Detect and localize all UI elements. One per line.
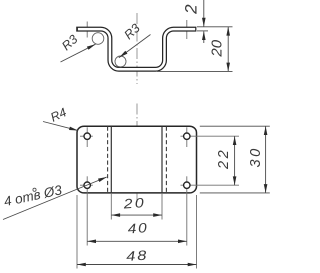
ext line at flange bottom right	[197, 30, 208, 32]
ext lines below: plate edges for dim 48	[76, 195, 78, 269]
dim 2 lower line	[203, 31, 205, 43]
dim 40 line	[87, 240, 187, 242]
svg-text:20: 20	[208, 39, 225, 57]
profile outline (sheet)	[76, 29, 196, 69]
dim 20 bottom line	[111, 214, 162, 216]
dim 20 (height) line	[227, 27, 229, 72]
hole horizontal ticks right column + ext for dim 22	[181, 135, 240, 137]
thin circle at lower-left bend	[115, 56, 126, 67]
ext lines below: solid bend lines for dim 20	[110, 193, 112, 220]
ext lines right for dim 30	[200, 125, 270, 127]
hole horizontal ticks left column	[80, 135, 93, 137]
hole axis right flange	[186, 20, 188, 39]
hole axis left flange	[86, 22, 88, 38]
dim 30 line	[265, 126, 267, 193]
bend line solid right	[161, 126, 163, 193]
flourish circle over label	[33, 188, 36, 191]
R3 #1 leader	[61, 44, 96, 62]
dim 22 line	[234, 136, 236, 185]
ext line top y=26.8	[197, 26, 233, 28]
bend line dashed left	[107, 127, 109, 193]
bend line dashed right	[165, 127, 167, 193]
hole top-right	[184, 133, 190, 139]
centerline vertical top view	[136, 13, 138, 84]
svg-text:40: 40	[127, 221, 149, 237]
hole bottom-left	[84, 182, 90, 188]
dim 48 line	[77, 264, 197, 266]
centerline vertical plan	[136, 104, 138, 205]
svg-text:2: 2	[182, 4, 201, 15]
R4 leader	[43, 122, 78, 131]
svg-text:48: 48	[126, 248, 149, 265]
hole vertical ticks top row	[86, 127, 88, 147]
hole bottom-right	[184, 182, 190, 188]
hole top-left	[84, 133, 90, 139]
svg-text:22: 22	[216, 148, 232, 170]
thin circle at upper-left bend	[92, 33, 104, 45]
plate outline	[77, 126, 197, 193]
4 otv leader	[3, 177, 107, 220]
R3 #2 leader	[119, 35, 151, 58]
bend line solid left	[110, 126, 112, 193]
svg-text:20: 20	[122, 196, 146, 212]
hole vertical ticks bottom row + ext for dim 40	[86, 176, 88, 245]
svg-text:30: 30	[248, 146, 264, 167]
ext line bottom y=71.4	[157, 70, 233, 72]
dim 2 (thickness) upper line	[203, 0, 205, 27]
